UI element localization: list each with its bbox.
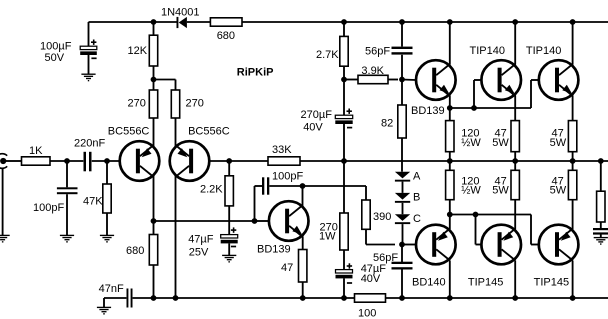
resistor R 47 5W (bottom #2) (568, 170, 576, 199)
resistor R 47 5W (bottom #1) (511, 170, 519, 199)
wire output rail 33K to right edge (300, 160, 608, 162)
wire 47µF-40V to bottom rail (343, 278, 345, 298)
wire top base bus (450, 80, 539, 108)
resistor R 680 (bottom) (149, 235, 157, 266)
wire top rail 680 to right edge (242, 21, 608, 23)
label BC556C #2 (188, 126, 230, 138)
resistor R 47 5W (top #2) (568, 121, 576, 152)
wire base BD139 top (402, 79, 416, 82)
wire driver emitter down (302, 237, 304, 250)
svg-text:BD139: BD139 (257, 244, 291, 256)
wire diode C to BD140 base node (402, 224, 404, 244)
label 100 (358, 308, 376, 319)
wire 100pF-driver right leg (269, 185, 302, 187)
transistor Q4 BD139 (top NPN) (416, 60, 456, 100)
wire 270-1W to 47µF-40V (343, 250, 345, 270)
wire 100pF bottom stub (66, 194, 68, 235)
wire 47K top stub (106, 161, 108, 184)
label RiPKiP (237, 67, 274, 79)
ground below 100pF (60, 235, 74, 241)
diode D1 1N4001 triangle (179, 17, 187, 28)
wire BD140 base (402, 244, 416, 246)
wire 12K top stub (153, 22, 155, 35)
node top rail 56pF junction (399, 19, 405, 25)
transistor Q1 BC556C (left PNP) (120, 141, 160, 181)
wire 100µF bottom stub (88, 55, 90, 74)
node output junction x515 (512, 158, 518, 164)
svg-text:47nF: 47nF (99, 283, 124, 295)
wire 2.7K bottom stub (343, 66, 345, 79)
node 100pF-driver junction (252, 218, 258, 224)
resistor R 33K (268, 157, 300, 165)
label 47 bot2 (552, 175, 564, 187)
node top rail Q4 (447, 19, 453, 25)
svg-text:1W: 1W (319, 230, 336, 242)
resistor R 100 (355, 294, 386, 302)
wire 1K to 220nF (50, 160, 83, 162)
transistor Q5 TIP140 #1 (481, 60, 521, 100)
svg-text:680: 680 (126, 245, 144, 257)
wire bottom rail 100 to right edge (386, 297, 608, 299)
wire driver collector up (302, 186, 304, 206)
node top rail Q6 (570, 19, 576, 25)
svg-text:TIP145: TIP145 (468, 277, 503, 289)
svg-text:270: 270 (128, 98, 146, 110)
label BC556C #1 (108, 126, 150, 138)
wire bottom rail 47nF to 100 (133, 297, 355, 299)
resistor R 47 5W (top #1) (511, 121, 519, 152)
wire collector Q1 junction to 680 (153, 221, 155, 235)
svg-text:270µF: 270µF (301, 109, 333, 121)
wire 2.7K top stub (343, 22, 345, 36)
wire 270µF to output rail (343, 124, 345, 161)
node top base bus junction (471, 105, 477, 111)
svg-text:TIP145: TIP145 (534, 277, 569, 289)
wire 3.9K left stub (344, 79, 358, 81)
label 2.7K (316, 49, 339, 61)
node bottom rail 680 (151, 295, 157, 301)
capacitor C 47µF 40V (336, 263, 353, 283)
svg-text:50V: 50V (45, 52, 65, 64)
node top rail Q5 (512, 19, 518, 25)
wire junction to 270 #2 (154, 80, 176, 91)
node 3.9K/82 junction (399, 77, 405, 83)
node bottom rail Q9 (570, 295, 576, 301)
label TIP140 #1 (470, 45, 505, 57)
svg-text:1N4001: 1N4001 (161, 6, 200, 18)
wire collector Q2 down to bottom rail (175, 175, 177, 298)
node top rail 2.7K (341, 19, 347, 25)
svg-text:TIP140: TIP140 (526, 45, 561, 57)
node 47K junction (104, 158, 110, 164)
wire Q4 collector to rail (449, 22, 451, 65)
transistor Q6 TIP140 #2 (539, 60, 579, 100)
wire 47-5W #1 to rail (514, 152, 516, 161)
svg-text:½W: ½W (461, 184, 481, 196)
label 50V (45, 52, 65, 64)
label 47K (83, 195, 103, 207)
capacitor C 47µF 25V (221, 227, 238, 246)
svg-text:BC556C: BC556C (188, 126, 230, 138)
svg-text:390: 390 (373, 211, 391, 223)
svg-text:5W: 5W (492, 184, 509, 196)
wire 120 bottom to rail (449, 161, 451, 170)
wire 3.9K right stub (388, 79, 398, 81)
label 680 top (217, 30, 235, 42)
ground below 47nF (97, 307, 111, 313)
label 5W top1 (492, 137, 509, 149)
wire 56pF bottom to rail (401, 269, 403, 298)
wire 47-5W #2 to rail (572, 152, 574, 161)
wire junction to 270 #1 (153, 80, 155, 91)
capacitor C 270µF 40V (335, 109, 352, 128)
wire 47nF ground leg (104, 298, 126, 307)
wire 82 top stub (401, 80, 403, 106)
svg-text:33K: 33K (272, 144, 292, 156)
svg-text:TIP140: TIP140 (470, 45, 505, 57)
resistor R 82 (398, 105, 406, 138)
svg-text:270: 270 (186, 98, 204, 110)
resistor R zobel (597, 191, 605, 222)
ground below 47K (100, 235, 114, 241)
wire 2.2K to 47µF (228, 206, 230, 235)
label 33K (272, 144, 292, 156)
wire diode A to B (402, 182, 404, 193)
wire Q8 emitter up (514, 200, 516, 229)
svg-text:56pF: 56pF (365, 45, 390, 57)
capacitor C 56pF (bottom) (392, 262, 413, 270)
wire Q4 emitter down (449, 96, 451, 121)
label 40V (270µF) (303, 122, 323, 134)
wire Q8 collector down (514, 261, 516, 299)
wire y221 to driver base (154, 220, 255, 222)
label 47 bot1 (495, 175, 507, 187)
node output junction x572 (570, 158, 576, 164)
svg-text:220nF: 220nF (74, 137, 105, 149)
transistor Q9 TIP145 #2 (539, 225, 579, 265)
svg-text:RiPKiP: RiPKiP (237, 67, 274, 79)
node 100pF junction (64, 158, 70, 164)
svg-text:A: A (413, 170, 421, 182)
wire base Q2 to 33K node (209, 160, 268, 162)
label 100pF driver (272, 171, 303, 183)
node bottom rail 47µF40V (341, 295, 347, 301)
wire 220nF to base BC556C #1 (92, 160, 120, 162)
node bottom rail 47 (300, 295, 306, 301)
label 56pF top (365, 45, 390, 57)
wire 12K bottom stub (153, 66, 155, 80)
transistor Q8 TIP145 #1 (481, 225, 521, 265)
label TIP145 #1 (468, 277, 503, 289)
svg-text:5W: 5W (550, 184, 567, 196)
svg-text:B: B (413, 192, 420, 204)
svg-text:BD139: BD139 (411, 105, 445, 117)
label 47 top2 (552, 128, 564, 140)
wire Q6 emitter down (572, 96, 574, 121)
wire Q9 emitter up (572, 200, 574, 229)
resistor R 47K (103, 184, 111, 213)
resistor R 390 (362, 200, 370, 229)
svg-text:100pF: 100pF (33, 202, 64, 214)
ground below zobel (594, 238, 608, 244)
resistor R 270 1W (340, 213, 348, 250)
node base Q2 junction (226, 158, 232, 164)
wire y186 to 390 (303, 186, 367, 200)
wire driver base (255, 220, 269, 222)
label 56pF bottom (373, 252, 398, 264)
svg-text:680: 680 (217, 30, 235, 42)
wire 390 bottom to diode node (366, 229, 395, 244)
wire 2.2K top stub (228, 161, 230, 176)
wire zobel top stub (600, 161, 602, 191)
wire collector Q1 down (153, 175, 155, 221)
wire top positive rail from 100µF to diode (89, 21, 177, 23)
label 100µF (40, 41, 72, 53)
capacitor C 100pF (input) (57, 187, 78, 194)
label 5W top2 (550, 137, 567, 149)
node Q7 emitter junction (447, 212, 453, 218)
wire Q5 collector to rail (514, 22, 516, 65)
resistor R 270 #1 (149, 90, 157, 118)
label TIP145 #2 (534, 277, 569, 289)
label 1K (29, 145, 43, 157)
svg-text:25V: 25V (189, 247, 209, 259)
label 12K (128, 45, 148, 57)
diode B (395, 193, 410, 203)
label 47µF 40V line2 (361, 273, 381, 285)
svg-text:40V: 40V (361, 273, 381, 285)
wire 82 to diode A (401, 138, 403, 172)
label BD139 driver (257, 244, 291, 256)
label 120 top (461, 128, 479, 140)
node BD139 collector junction (300, 183, 306, 189)
wire Q7 collector down (449, 261, 451, 299)
label 2.2K (200, 184, 223, 196)
wire 120 top to rail (449, 152, 451, 161)
label 680 bottom (126, 245, 144, 257)
wire Q6 collector to rail (572, 22, 574, 65)
wire 270#1 to emitter Q1 (153, 118, 155, 147)
capacitor C 220nF (84, 152, 92, 172)
label B (413, 192, 420, 204)
label 47µF 25V line2 (189, 247, 209, 259)
node Q4 emitter junction (447, 105, 453, 111)
svg-text:3.9K: 3.9K (361, 65, 384, 77)
label BD140 (412, 277, 446, 289)
wire 47-5W bot#2 to rail (572, 161, 574, 170)
wire Q7 emitter up (449, 200, 451, 229)
label 5W bot2 (550, 184, 567, 196)
label 220nF (74, 137, 105, 149)
wire input connector ground (2, 168, 4, 235)
wire 680 to bottom rail (153, 265, 155, 298)
wire 100pF top stub (66, 161, 68, 187)
label 3.9K (361, 65, 384, 77)
svg-text:47µF: 47µF (188, 234, 214, 246)
label halfW top (461, 137, 481, 149)
resistor R 12K (149, 35, 157, 66)
input connector jack (0, 154, 7, 169)
wire 100pF-driver left leg (255, 186, 263, 221)
resistor R 680 (top) (210, 18, 242, 26)
capacitor C 100pF (driver) (262, 177, 269, 194)
svg-text:½W: ½W (461, 137, 481, 149)
label 270 1W line1 (320, 221, 338, 233)
svg-text:2.7K: 2.7K (316, 49, 339, 61)
capacitor C zobel (593, 228, 608, 235)
label 82 (381, 117, 393, 129)
svg-text:47K: 47K (83, 195, 103, 207)
label 120 bottom (461, 175, 479, 187)
diode D1 1N4001 cathode bar (177, 17, 179, 28)
capacitor C 47nF (127, 289, 133, 308)
node top rail 12K (151, 19, 157, 25)
label 5W bot1 (492, 184, 509, 196)
node output junction x450 (447, 158, 453, 164)
resistor R 120 half-W (top) (446, 121, 454, 152)
svg-text:100µF: 100µF (40, 41, 72, 53)
label 1N4001 (161, 6, 200, 18)
label 47µF 25V line1 (188, 234, 214, 246)
resistor R 2.2K (225, 176, 233, 206)
transistor Q2 BC556C (right PNP, mirrored) (170, 141, 210, 181)
ground below 100µF (81, 74, 95, 80)
svg-text:56pF: 56pF (373, 252, 398, 264)
ground below input connector (0, 235, 10, 241)
svg-text:12K: 12K (128, 45, 148, 57)
wire 47µF to ground (228, 243, 230, 255)
svg-text:40V: 40V (303, 122, 323, 134)
svg-text:2.2K: 2.2K (200, 184, 223, 196)
svg-text:1K: 1K (29, 145, 43, 157)
node diode C / BD140 base junction (399, 242, 405, 248)
wire diode B to C (402, 203, 404, 214)
svg-text:100pF: 100pF (272, 171, 303, 183)
diode A (395, 172, 410, 182)
node 270µF/output junction (341, 158, 347, 164)
wire BD140-base node to 56pF bottom (401, 245, 403, 263)
wire 47-5W bot#1 to rail (514, 161, 516, 170)
label BD139 top (411, 105, 445, 117)
svg-text:BC556C: BC556C (108, 126, 150, 138)
wire zobel resistor to cap (600, 222, 602, 229)
wire 270-1W top stub (343, 161, 345, 213)
node output junction zobel (598, 158, 604, 164)
svg-text:82: 82 (381, 117, 393, 129)
wire top rail to 56pF (401, 22, 403, 47)
label 270 left (128, 98, 146, 110)
label A (413, 170, 421, 182)
svg-text:100: 100 (358, 308, 376, 319)
wire 270#2 to emitter Q2 (175, 118, 177, 147)
label 390 (373, 211, 391, 223)
wire 47 to bottom rail (302, 282, 304, 298)
resistor R 1K (22, 157, 51, 165)
capacitor C 56pF (top) (392, 47, 413, 55)
resistor R 47 (driver emitter) (299, 250, 307, 283)
resistor R 3.9K (358, 75, 388, 83)
wire Q5 emitter down (514, 96, 516, 121)
svg-text:5W: 5W (492, 137, 509, 149)
node 12K/270 junction (151, 77, 157, 83)
resistor R 2.7K (340, 36, 348, 66)
svg-text:C: C (413, 213, 421, 225)
resistor R 120 half-W (bottom) (446, 170, 454, 199)
label C (413, 213, 421, 225)
wire 56pF to 3.9K node (401, 55, 403, 80)
label 47nF (99, 283, 124, 295)
label 47 driver (281, 262, 293, 274)
svg-text:47: 47 (281, 262, 293, 274)
label 47 top1 (495, 128, 507, 140)
node 2.7K/3.9K junction (341, 77, 347, 83)
capacitor C 100µF 50V (80, 40, 97, 59)
transistor Q7 BD140 (PNP) (416, 225, 456, 265)
ground below 47µF 25V (222, 255, 236, 261)
transistor Q3 BD139 (driver NPN) (269, 201, 309, 241)
node bottom rail Q8 (512, 295, 518, 301)
wire input to 1K (6, 160, 22, 162)
label 270 right (186, 98, 204, 110)
wire 2.7K junction to 270µF (343, 80, 345, 116)
label TIP140 #2 (526, 45, 561, 57)
node bottom rail 56pF (399, 295, 405, 301)
wire top rail diode to 680 (187, 21, 211, 23)
label 270 1W line2 (319, 230, 336, 242)
svg-text:BD140: BD140 (412, 277, 446, 289)
label 100pF input (33, 202, 64, 214)
wire bottom base bus (450, 215, 539, 245)
label 270µF (301, 109, 333, 121)
svg-text:5W: 5W (550, 137, 567, 149)
wire 100µF top stub (88, 22, 90, 46)
node collector Q1 / 680 junction (151, 218, 157, 224)
wire zobel cap to ground (600, 234, 602, 238)
node bottom rail Q2 collector (173, 295, 179, 301)
node bottom rail Q7 (447, 295, 453, 301)
wire 47K bottom stub (106, 213, 108, 235)
diode C (395, 214, 410, 224)
node bottom base bus junction (473, 212, 479, 218)
label 47µF 40V line1 (361, 263, 387, 275)
wire Q9 collector down (572, 261, 574, 299)
resistor R 270 #2 (171, 90, 179, 118)
label halfW bottom (461, 184, 481, 196)
